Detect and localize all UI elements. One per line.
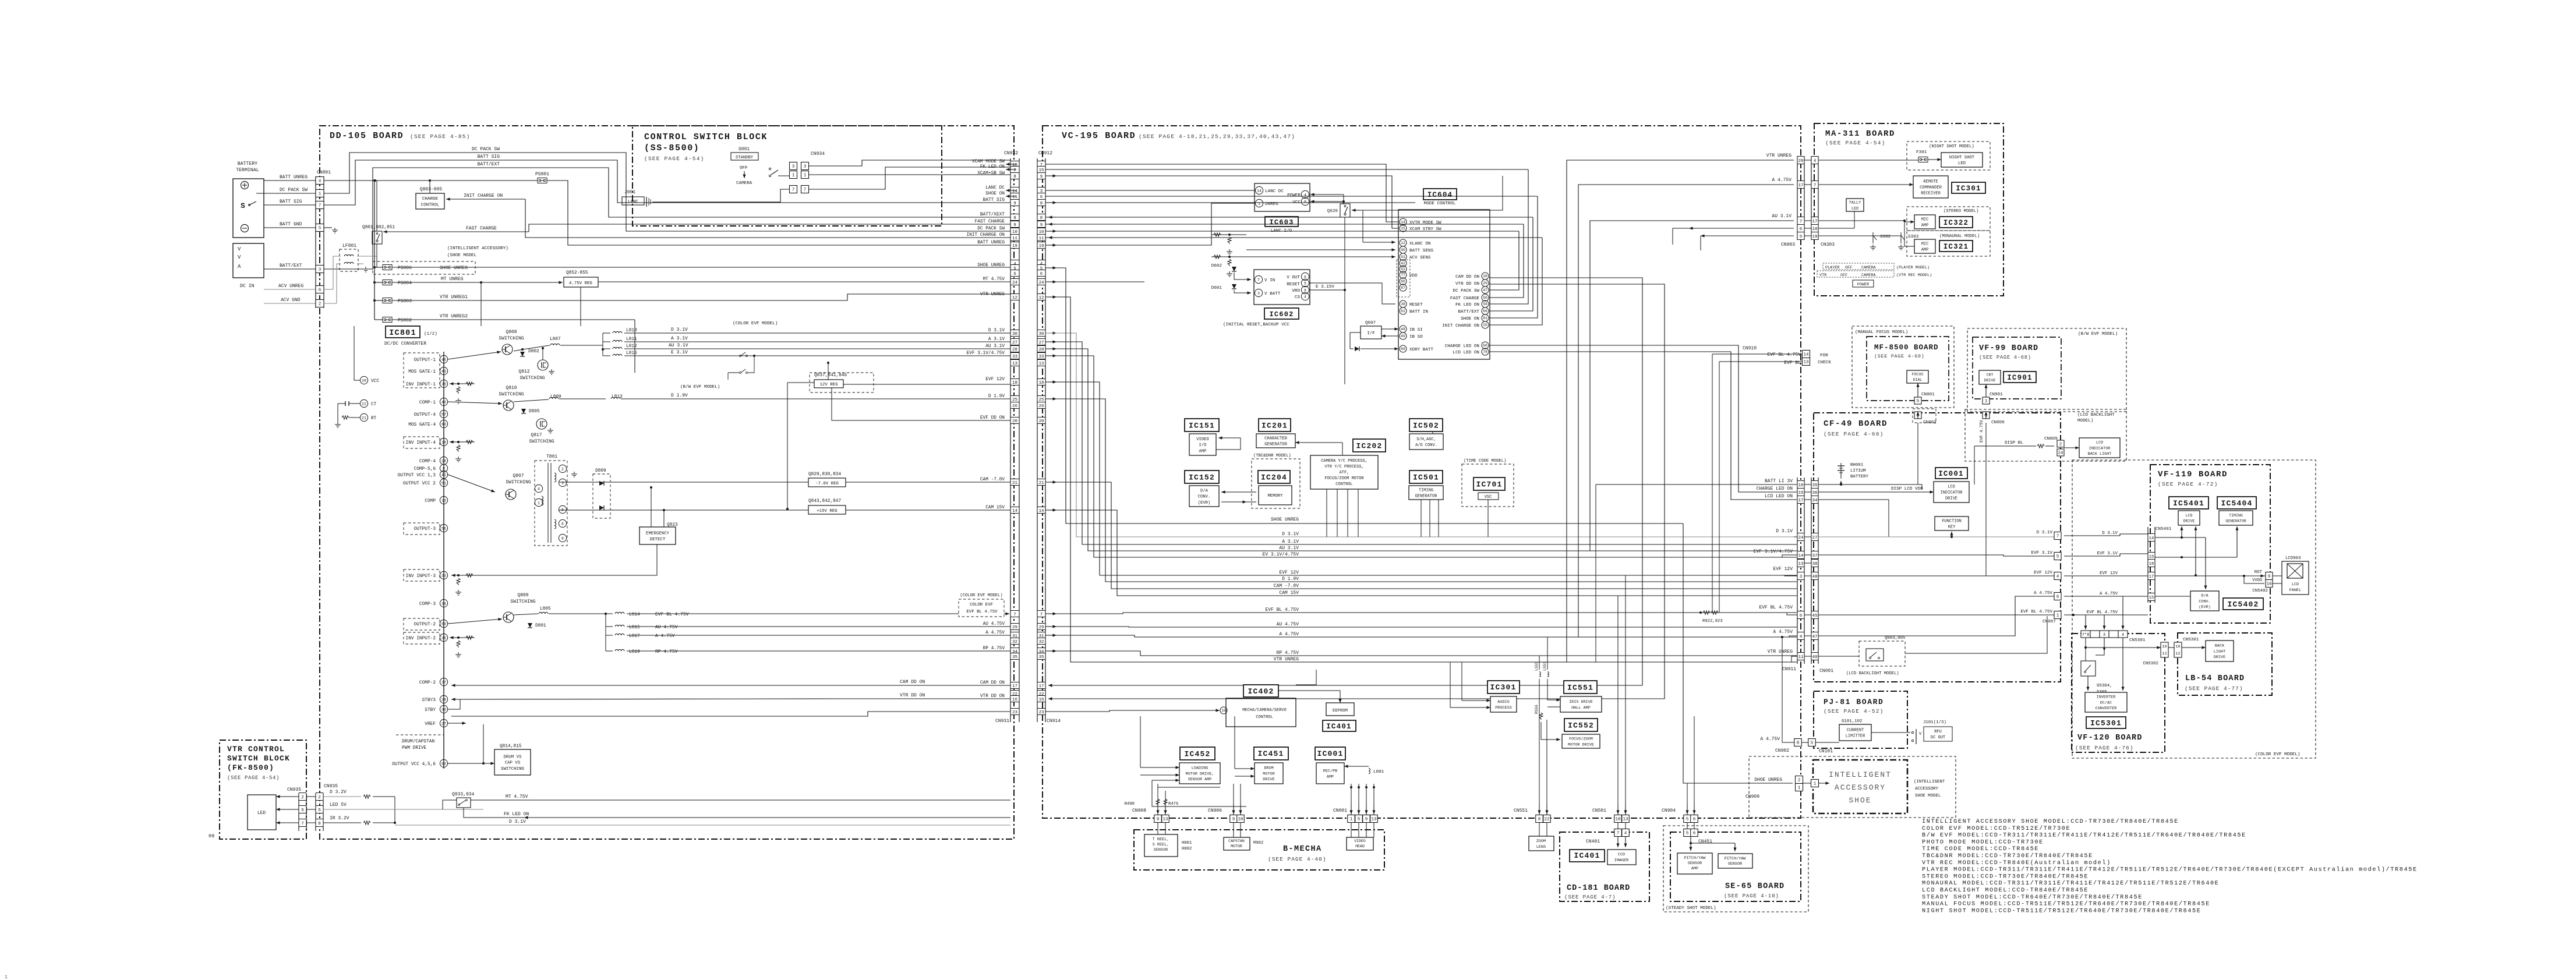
bus SHOE UNREG xyxy=(1045,268,1683,523)
connector CN5301 strip xyxy=(2081,631,2090,638)
coil L814 xyxy=(615,612,624,614)
IC label IC001m xyxy=(1315,747,1345,760)
svg-text:CN007: CN007 xyxy=(2043,620,2056,624)
svg-text:D 3.1V: D 3.1V xyxy=(988,328,1005,333)
svg-text:BATT/EXT: BATT/EXT xyxy=(280,263,302,268)
svg-text:32: 32 xyxy=(1012,640,1017,645)
svg-text:7: 7 xyxy=(1814,183,1817,188)
svg-text:CN932: CN932 xyxy=(1004,151,1018,156)
svg-text:D 3.1V: D 3.1V xyxy=(1282,532,1299,537)
svg-text:CHECK: CHECK xyxy=(1818,360,1831,365)
diode D809b xyxy=(599,505,604,510)
svg-text:D 3.1V: D 3.1V xyxy=(509,819,526,825)
svg-text:50: 50 xyxy=(1483,296,1487,300)
svg-text:18: 18 xyxy=(1812,227,1818,232)
svg-text:24: 24 xyxy=(1798,536,1804,540)
svg-text:IC5401: IC5401 xyxy=(2173,499,2204,508)
wire T801 to +15V reg xyxy=(559,510,808,511)
rail RP 4.75V left xyxy=(627,650,1010,652)
svg-text:27: 27 xyxy=(1012,341,1017,345)
svg-text:VSC: VSC xyxy=(1485,495,1492,500)
svg-text:DC PACK SW: DC PACK SW xyxy=(472,147,500,152)
wires timing gen xyxy=(2155,557,2237,558)
svg-text:20: 20 xyxy=(1798,159,1804,164)
svg-text:VCC: VCC xyxy=(371,379,379,384)
svg-text:10: 10 xyxy=(1221,709,1226,713)
IC label IC204 xyxy=(1258,470,1290,483)
svg-text:BATT UNREG: BATT UNREG xyxy=(977,240,1005,245)
svg-text:IC604: IC604 xyxy=(1427,191,1453,199)
svg-text:23: 23 xyxy=(1039,710,1044,715)
svg-text:2: 2 xyxy=(301,795,304,800)
svg-text:Q843,842,847: Q843,842,847 xyxy=(808,499,841,504)
svg-text:57: 57 xyxy=(441,412,446,416)
box LCD DRIVE xyxy=(2178,511,2200,525)
svg-text:13: 13 xyxy=(1623,818,1628,822)
svg-text:AU 4.75V: AU 4.75V xyxy=(1277,622,1299,627)
ground g602a xyxy=(1229,249,1230,252)
svg-text:1: 1 xyxy=(1350,818,1353,822)
box BACK LIGHT DRIVE xyxy=(2206,641,2234,661)
wire evf12v vf119 xyxy=(2155,575,2266,576)
coil L816 xyxy=(613,354,622,356)
svg-text:29: 29 xyxy=(1483,281,1487,285)
svg-text:XVTR MODE SW: XVTR MODE SW xyxy=(1409,221,1441,225)
svg-text:IC401: IC401 xyxy=(1574,851,1600,860)
svg-text:47: 47 xyxy=(1812,635,1817,639)
IC label IC602 xyxy=(1264,308,1299,319)
wire LCD LED ON in CF-49 xyxy=(1818,500,1889,537)
board outline INTELLIGENT ACCESSORY SHOE xyxy=(1813,760,1907,813)
svg-text:48: 48 xyxy=(1401,327,1405,331)
bus A 4.75V xyxy=(1045,635,1797,637)
svg-text:4: 4 xyxy=(2122,633,2124,638)
svg-text:4: 4 xyxy=(2056,575,2059,579)
svg-text:BATTERY: BATTERY xyxy=(238,161,257,167)
bus RP 4.75V xyxy=(1045,651,1797,656)
svg-text:FOCUS: FOCUS xyxy=(1912,373,1924,377)
resistor rin3 xyxy=(466,574,473,577)
svg-text:FUNCTION: FUNCTION xyxy=(1942,519,1962,524)
bus EVF BL 4.75V xyxy=(1045,613,1797,614)
svg-text:REC/PB: REC/PB xyxy=(1323,769,1337,774)
wire EVF DD ON xyxy=(832,388,1010,420)
svg-text:R556: R556 xyxy=(1535,705,1539,714)
svg-text:TBC&DNR MODEL:CCD-TR730E/TR840: TBC&DNR MODEL:CCD-TR730E/TR840E/TR845E xyxy=(1922,852,2093,859)
svg-text:V: V xyxy=(238,246,241,252)
svg-text:LED: LED xyxy=(1851,206,1858,211)
svg-text:IB SO: IB SO xyxy=(1409,335,1423,339)
svg-text:CN911: CN911 xyxy=(1782,667,1796,672)
svg-text:EVF BL: EVF BL xyxy=(1784,360,1801,366)
svg-text:5: 5 xyxy=(1686,832,1689,836)
svg-text:LANC DC: LANC DC xyxy=(1265,189,1284,194)
box RFU DC OUT xyxy=(1924,727,1952,741)
svg-text:MODEL): MODEL) xyxy=(2077,419,2093,423)
svg-text:CS: CS xyxy=(1295,295,1301,300)
svg-text:IC602: IC602 xyxy=(1269,310,1294,319)
svg-text:SHOE UNREG: SHOE UNREG xyxy=(1754,777,1782,783)
svg-text:I/O: I/O xyxy=(1199,443,1207,448)
box MIC AMP 322 xyxy=(1914,215,1935,229)
model box MANUAL FOCUS MODEL xyxy=(1852,326,1954,408)
bus EVF 12V xyxy=(1045,382,1797,575)
IC801 body xyxy=(443,352,444,769)
svg-text:38: 38 xyxy=(1812,562,1818,567)
svg-text:LB-54 BOARD: LB-54 BOARD xyxy=(2185,674,2245,683)
svg-text:COMP-1: COMP-1 xyxy=(419,401,436,405)
board outline VF-120 xyxy=(2072,634,2165,752)
svg-text:IC452: IC452 xyxy=(1184,750,1210,759)
svg-text:BATT IN: BATT IN xyxy=(1409,310,1428,314)
svg-text:L810: L810 xyxy=(626,328,637,333)
svg-text:RECEIVER: RECEIVER xyxy=(1921,192,1941,196)
svg-text:DC/AC: DC/AC xyxy=(2100,700,2112,705)
svg-text:G5304,: G5304, xyxy=(2097,684,2112,688)
svg-text:2: 2 xyxy=(318,795,321,800)
svg-text:58: 58 xyxy=(1483,302,1487,306)
svg-text:15: 15 xyxy=(1401,227,1405,231)
svg-text:23: 23 xyxy=(1012,710,1017,715)
resistor rin1b xyxy=(457,387,460,394)
wires IC604 right fan xyxy=(1048,278,1642,685)
svg-text:OUTPUT-4: OUTPUT-4 xyxy=(414,413,436,418)
svg-text:RFU: RFU xyxy=(1934,730,1942,734)
svg-text:D 3.1V: D 3.1V xyxy=(2037,530,2053,535)
wire BATT LI 3V xyxy=(1596,484,1797,485)
svg-text:(SEE PAGE 4-60): (SEE PAGE 4-60) xyxy=(1874,353,1924,359)
diode D602 xyxy=(1232,267,1236,271)
svg-text:2: 2 xyxy=(2059,443,2062,447)
svg-text:LED: LED xyxy=(1958,161,1966,166)
svg-text:AMP: AMP xyxy=(1199,449,1207,454)
svg-text:(TIME CODE MODEL): (TIME CODE MODEL) xyxy=(1464,459,1506,464)
svg-text:33: 33 xyxy=(1039,355,1044,359)
box ZOOM LENS xyxy=(1529,836,1554,851)
svg-text:OUTPUT-3: OUTPUT-3 xyxy=(414,527,436,532)
box EEPROM xyxy=(1326,703,1354,716)
wire BATT/EXT route xyxy=(324,168,508,269)
wire ACV GND xyxy=(324,303,337,304)
svg-text:9: 9 xyxy=(1013,201,1016,206)
svg-text:66: 66 xyxy=(1483,309,1487,313)
IC label IC604 xyxy=(1423,189,1457,200)
bus A 4.75V to MA-311 xyxy=(1578,185,1794,637)
svg-text:INDICATOR: INDICATOR xyxy=(1941,491,1963,496)
bus A 3.1V xyxy=(1045,342,1797,544)
wires lcd drive xyxy=(2155,537,2206,538)
svg-text:MT 4.75V: MT 4.75V xyxy=(506,794,528,799)
IC602 body xyxy=(1254,270,1310,305)
svg-text:Q620: Q620 xyxy=(1327,209,1338,214)
svg-text:S303: S303 xyxy=(1908,235,1919,239)
box FUNCTION KEY xyxy=(1935,516,1969,530)
svg-text:IC202: IC202 xyxy=(1356,442,1382,451)
wire evfbl to strip xyxy=(2072,614,2075,616)
svg-text:CN904: CN904 xyxy=(1662,808,1676,813)
svg-text:FOCUS/ZOOM: FOCUS/ZOOM xyxy=(1569,737,1593,742)
svg-text:CONTROL SWITCH BLOCK: CONTROL SWITCH BLOCK xyxy=(644,132,768,142)
wire IC202 to IC201 xyxy=(1295,442,1310,443)
connector CN5402 xyxy=(2266,572,2273,580)
board outline VF-119 xyxy=(2150,465,2270,623)
svg-text:LCD: LCD xyxy=(2096,441,2103,445)
DC IN terminal box xyxy=(233,243,264,278)
svg-text:34: 34 xyxy=(1812,498,1818,503)
bus D 1.9V xyxy=(1045,399,1797,582)
svg-text:25: 25 xyxy=(1012,398,1017,402)
svg-text:(SS-8500): (SS-8500) xyxy=(644,143,699,153)
svg-text:AU 3.1V: AU 3.1V xyxy=(1772,214,1791,219)
transistor Q808 xyxy=(502,344,513,355)
svg-text:TERMINAL: TERMINAL xyxy=(236,168,259,173)
svg-text:XDRY BATT: XDRY BATT xyxy=(1409,348,1433,352)
switch G5304 xyxy=(2081,661,2096,676)
svg-text:RP 4.75V: RP 4.75V xyxy=(1277,650,1299,656)
wires iris top xyxy=(1539,656,1540,670)
bus CAM -7.0V xyxy=(1045,482,1797,589)
board outline PJ-81 xyxy=(1814,691,1907,748)
svg-text:9: 9 xyxy=(1013,223,1016,228)
svg-text:B-MECHA: B-MECHA xyxy=(1283,845,1322,854)
wire J001 to CN934 xyxy=(652,189,790,202)
svg-text:17: 17 xyxy=(2149,575,2154,579)
svg-text:(MONAURAL MODEL): (MONAURAL MODEL) xyxy=(1939,234,1980,239)
svg-text:CN935: CN935 xyxy=(324,784,338,789)
bus EVFBL through CF-49 xyxy=(1818,614,2054,615)
svg-text:COLOR EVF: COLOR EVF xyxy=(970,603,993,607)
box MEMORY xyxy=(1259,486,1292,505)
svg-text:CN910: CN910 xyxy=(1743,346,1757,351)
svg-text:PS802: PS802 xyxy=(398,318,412,323)
rail E 3.1V left xyxy=(624,355,1010,356)
box REMOTE COMMANDER RECEIVER xyxy=(1913,176,1948,198)
svg-text:MT 4.75V: MT 4.75V xyxy=(983,277,1005,282)
svg-text:(INTELLIGENT ACCESSORY): (INTELLIGENT ACCESSORY) xyxy=(447,246,508,251)
IC label IC5402 xyxy=(2223,598,2263,610)
svg-text:D809: D809 xyxy=(595,469,606,473)
svg-text:GENERATOR: GENERATOR xyxy=(2225,519,2246,523)
svg-text:COMP-2: COMP-2 xyxy=(419,681,436,685)
svg-text:MT UNREG: MT UNREG xyxy=(441,277,464,282)
svg-text:30: 30 xyxy=(441,707,446,712)
svg-text:LENS: LENS xyxy=(1536,845,1546,850)
svg-text:ACV GND: ACV GND xyxy=(281,298,301,303)
IC label IC5401 xyxy=(2169,497,2208,509)
svg-text:-7.0V REG: -7.0V REG xyxy=(815,482,839,486)
B-MECHA box VIDEO HEAD xyxy=(1347,837,1373,850)
svg-text:(EVR): (EVR) xyxy=(1198,501,1211,505)
svg-text:SHOE UNREG: SHOE UNREG xyxy=(977,263,1005,268)
svg-text:MA-311 BOARD: MA-311 BOARD xyxy=(1825,129,1895,139)
svg-text:12: 12 xyxy=(1039,296,1044,300)
svg-text:1: 1 xyxy=(1798,786,1801,791)
svg-text:LCD BACKLIGHT MODEL:CCD-TR840E: LCD BACKLIGHT MODEL:CCD-TR840E/TR845E xyxy=(1922,887,2089,894)
svg-text:63: 63 xyxy=(441,762,446,766)
svg-text:14: 14 xyxy=(1401,220,1405,224)
svg-text:3: 3 xyxy=(1257,291,1260,295)
fuse F301 xyxy=(1918,157,1928,162)
svg-text:32: 32 xyxy=(1039,640,1044,645)
connector CN006 xyxy=(1983,412,1990,419)
svg-text:VTR UNREG: VTR UNREG xyxy=(1274,657,1299,662)
svg-text:FOR: FOR xyxy=(1820,353,1828,358)
box LOADING MOTOR DRIVE SENSOR AMP xyxy=(1179,763,1220,784)
B-MECHA box T REEL S REEL SENSOR xyxy=(1144,834,1178,857)
svg-text:NIGHT SHOT: NIGHT SHOT xyxy=(1949,155,1975,160)
svg-text:D801: D801 xyxy=(535,624,546,628)
svg-text:CN303: CN303 xyxy=(1821,242,1835,247)
box NIGHT SHOT LED xyxy=(1941,153,1983,167)
svg-text:SWITCHING: SWITCHING xyxy=(506,480,531,485)
svg-text:TIMING: TIMING xyxy=(2229,514,2243,518)
svg-text:CAM DD ON: CAM DD ON xyxy=(1455,275,1479,280)
arrows into bottom connectors xyxy=(1157,804,1158,814)
svg-text:H002: H002 xyxy=(1182,847,1192,851)
svg-text:LCD LED ON: LCD LED ON xyxy=(1765,494,1793,499)
board outline CONTROL SWITCH BLOCK xyxy=(632,126,942,226)
svg-text:INIT CHARGE ON: INIT CHARGE ON xyxy=(1442,324,1479,328)
resistor r D3.2 xyxy=(363,795,370,798)
svg-text:L819: L819 xyxy=(629,650,640,654)
svg-text:(FK-8500): (FK-8500) xyxy=(227,763,274,772)
svg-text:(COLOR EVF MODEL): (COLOR EVF MODEL) xyxy=(733,321,778,326)
svg-text:(NIGHT SHOT MODEL): (NIGHT SHOT MODEL) xyxy=(1929,144,1974,149)
fuse PS802 xyxy=(383,317,392,323)
svg-text:LANC DC: LANC DC xyxy=(985,186,1005,190)
svg-text:3: 3 xyxy=(792,165,795,169)
wire LCD LED ON from IC604 xyxy=(1489,351,1731,352)
bus D 3.1V xyxy=(1045,333,1797,537)
diode D801 xyxy=(528,623,532,628)
wires into CN5301 strip xyxy=(2085,617,2086,629)
svg-text:IRIS DRIVE: IRIS DRIVE xyxy=(1569,700,1593,705)
svg-text:3: 3 xyxy=(804,165,807,169)
svg-text:3: 3 xyxy=(1800,575,1803,579)
ground gin2 xyxy=(458,652,459,654)
svg-text:(SEE PAGE 4-72): (SEE PAGE 4-72) xyxy=(2158,481,2218,487)
wire BATT UNREG terminal xyxy=(264,180,316,181)
svg-text:3: 3 xyxy=(561,481,564,485)
svg-text:43: 43 xyxy=(441,369,446,373)
svg-text:STEADY SHOT MODEL:CCD-TR640E/T: STEADY SHOT MODEL:CCD-TR640E/TR730E/TR84… xyxy=(1922,894,2143,901)
ground S303 gnd xyxy=(1900,245,1902,247)
svg-text:CAPSTAN: CAPSTAN xyxy=(1228,839,1245,843)
resistor r602d xyxy=(1228,259,1231,266)
svg-text:IB SI: IB SI xyxy=(1409,328,1423,332)
svg-text:BATT SIG: BATT SIG xyxy=(280,199,302,204)
svg-text:27: 27 xyxy=(1812,536,1817,540)
svg-text:13: 13 xyxy=(1162,818,1168,822)
wire BATT SIG route xyxy=(324,160,508,205)
svg-text:FK LED ON: FK LED ON xyxy=(1455,303,1479,307)
resistor rin1 xyxy=(466,382,473,385)
transistor Q810 xyxy=(503,400,514,411)
svg-text:8: 8 xyxy=(1040,201,1043,206)
wire IC152 links xyxy=(1221,491,1256,493)
bus EVF BL 4.75V vf119 xyxy=(2064,614,2148,615)
svg-text:T REEL,: T REEL, xyxy=(1153,837,1169,842)
svg-text:CONTROL: CONTROL xyxy=(1335,482,1352,487)
svg-text:(B/W EVF MODEL): (B/W EVF MODEL) xyxy=(2078,332,2118,337)
svg-text:CHARACTER: CHARACTER xyxy=(1264,436,1288,441)
svg-text:DRIVE: DRIVE xyxy=(1945,497,1957,501)
resistor r IR xyxy=(363,821,370,825)
svg-text:4: 4 xyxy=(1624,832,1627,836)
rail AU 4.75V left xyxy=(627,626,1010,627)
box D/A CONV EVR xyxy=(2190,591,2219,611)
svg-text:CN901: CN901 xyxy=(1990,392,2003,397)
wire BATT UNREG to PS801 xyxy=(324,180,538,181)
svg-text:19: 19 xyxy=(1039,244,1044,249)
bus MT 4.75V right xyxy=(1045,281,1144,282)
svg-text:30: 30 xyxy=(1012,332,1017,337)
wires SE-65 xyxy=(1690,837,1691,851)
board outline VC-195 xyxy=(1043,126,1801,818)
svg-text:L816: L816 xyxy=(626,351,637,356)
svg-text:13: 13 xyxy=(441,498,446,503)
svg-text:5: 5 xyxy=(1358,818,1361,822)
box PITCH/YAW SENSOR AMP xyxy=(1677,853,1712,874)
svg-text:PS806: PS806 xyxy=(398,266,412,271)
svg-text:PITCH/YAW: PITCH/YAW xyxy=(1684,856,1706,861)
svg-text:7: 7 xyxy=(1257,278,1260,282)
bus EVF12V through CF-49 xyxy=(1818,575,2054,576)
svg-text:IC402: IC402 xyxy=(1248,687,1274,696)
svg-text:V IN: V IN xyxy=(1264,278,1275,283)
svg-text:SHOE UNREG: SHOE UNREG xyxy=(440,266,468,271)
svg-text:MF-8500 BOARD: MF-8500 BOARD xyxy=(1874,344,1939,352)
coil LF801a xyxy=(344,254,354,256)
svg-text:INV INPUT-3: INV INPUT-3 xyxy=(406,574,436,579)
svg-text:(COLOR EVF MODEL): (COLOR EVF MODEL) xyxy=(2255,752,2300,757)
svg-text:IC322: IC322 xyxy=(1944,219,1969,227)
svg-text:DISP LCD VDD: DISP LCD VDD xyxy=(1891,487,1923,491)
svg-text:COMP-3: COMP-3 xyxy=(419,602,436,607)
svg-text:INTELLIGENT: INTELLIGENT xyxy=(1829,770,1892,779)
svg-text:Q607: Q607 xyxy=(1365,321,1376,326)
svg-text:IC701: IC701 xyxy=(1476,480,1502,489)
svg-text:CRT: CRT xyxy=(1987,373,1994,377)
svg-text:SENSOR: SENSOR xyxy=(1728,862,1742,866)
svg-text:7: 7 xyxy=(804,188,807,193)
terminal plus xyxy=(241,182,249,189)
svg-text:FAST CHARGE: FAST CHARGE xyxy=(466,226,497,231)
svg-text:28: 28 xyxy=(1483,274,1487,278)
coil L813 xyxy=(611,397,620,399)
svg-text:AMP: AMP xyxy=(1921,224,1929,228)
board outline LB-54 xyxy=(2178,633,2272,695)
svg-text:CN909: CN909 xyxy=(1745,794,1759,799)
connector CN932/CN912 pin rows xyxy=(1011,161,1019,167)
svg-text:Q808: Q808 xyxy=(506,330,517,335)
svg-text:CN912: CN912 xyxy=(1038,151,1052,156)
box MECHA/CAMERA/SERVO CONTROL xyxy=(1226,698,1296,727)
fuse PS806 SHOE UNREG xyxy=(373,261,475,274)
connector column backbones xyxy=(1010,158,1011,722)
svg-text:(LCD BACKLIGHT: (LCD BACKLIGHT xyxy=(2077,413,2115,418)
wires into B-MECHA xyxy=(1157,822,1158,834)
svg-text:40: 40 xyxy=(441,400,446,404)
svg-text:VTR CONTROL: VTR CONTROL xyxy=(227,745,285,753)
bus AU 3.1V to MA-311 xyxy=(1590,221,1794,551)
wire SHOE UNREG to accessory shoe xyxy=(1683,523,1793,783)
connector CN101 xyxy=(1808,739,1816,747)
svg-text:5: 5 xyxy=(2056,555,2059,560)
svg-text:VDD: VDD xyxy=(1409,274,1418,278)
svg-text:FK LED ON: FK LED ON xyxy=(504,812,529,817)
svg-text:8: 8 xyxy=(1040,216,1043,221)
